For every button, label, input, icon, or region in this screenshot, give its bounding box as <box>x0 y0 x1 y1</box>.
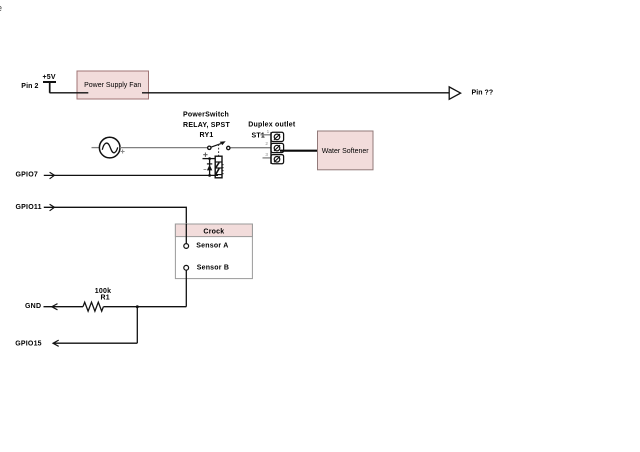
svg-text:+5V: +5V <box>43 74 56 81</box>
Pin ?? terminal triangle <box>449 87 460 99</box>
svg-text:GPIO15: GPIO15 <box>15 341 42 348</box>
Power Supply Fan box <box>77 71 149 99</box>
svg-text:3: 3 <box>265 152 268 157</box>
Water Softener box <box>318 131 374 170</box>
flyback diode <box>204 159 213 176</box>
wire junction down <box>136 307 138 344</box>
svg-text:e: e <box>0 3 2 13</box>
wire GPIO7 to relay coil <box>44 174 218 176</box>
GPIO7 arrow <box>50 172 55 179</box>
sensor B terminal <box>184 265 189 270</box>
resistor R1 <box>83 302 103 311</box>
svg-text:Crock: Crock <box>203 228 224 235</box>
Crock box <box>175 224 252 279</box>
wire +5V to Power Supply Fan <box>50 92 89 94</box>
wire AC source to relay switch <box>120 147 208 149</box>
relay actuator dashed link <box>218 144 220 155</box>
svg-text:R1: R1 <box>101 295 110 302</box>
wire resistor to crock <box>103 306 186 308</box>
relay coil top wire <box>203 158 216 160</box>
junction coil top / diode <box>208 157 211 160</box>
wire GND to resistor <box>44 306 84 308</box>
svg-text:Pin ??: Pin ?? <box>472 89 494 96</box>
svg-text:Power Supply Fan: Power Supply Fan <box>84 82 141 89</box>
wire to GPIO15 <box>53 342 137 344</box>
svg-text:GPIO11: GPIO11 <box>16 204 42 211</box>
svg-text:GPIO7: GPIO7 <box>16 172 39 179</box>
ST1 pin 1 stub <box>261 134 272 136</box>
AC source V? <box>92 137 125 158</box>
wire sensor B down <box>185 270 187 306</box>
svg-text:2: 2 <box>265 141 268 146</box>
svg-text:ST1: ST1 <box>252 132 266 139</box>
Duplex outlet labels <box>248 122 296 140</box>
GPIO15 arrow <box>53 340 59 346</box>
svg-text:Duplex outlet: Duplex outlet <box>248 122 296 129</box>
junction node <box>136 305 139 308</box>
svg-text:Water Softener: Water Softener <box>322 148 369 155</box>
svg-text:RY1: RY1 <box>199 132 213 139</box>
svg-text:Sensor B: Sensor B <box>197 265 230 272</box>
svg-text:1: 1 <box>267 129 270 134</box>
ST1 pin 3 stub <box>263 157 272 159</box>
svg-text:Pin 2: Pin 2 <box>21 83 38 90</box>
relay coil box <box>215 156 223 178</box>
relay switch contacts <box>208 141 230 150</box>
svg-text:Sensor A: Sensor A <box>196 243 228 250</box>
svg-text:GND: GND <box>25 303 41 310</box>
relay coil plus label <box>203 154 207 156</box>
svg-text:RELAY, SPST: RELAY, SPST <box>183 122 230 129</box>
GND arrow <box>52 304 58 310</box>
wire GPIO11 to Crock sensor A <box>44 207 187 243</box>
wire relay switch to ST1 pin 2 <box>230 147 271 149</box>
relay RY1 labels <box>183 111 230 139</box>
wire into crock to sensor A <box>185 224 187 243</box>
wire Power Supply Fan to Pin ?? <box>142 92 449 94</box>
junction coil bottom / diode <box>208 174 211 177</box>
+5V power symbol <box>43 74 57 93</box>
sensor A terminal <box>184 244 189 249</box>
svg-text:PowerSwitch: PowerSwitch <box>183 111 229 118</box>
duplex outlet ST1 body <box>271 132 284 164</box>
thick wire ST1 to Water Softener <box>280 150 318 152</box>
GPIO11 arrow <box>50 204 55 211</box>
